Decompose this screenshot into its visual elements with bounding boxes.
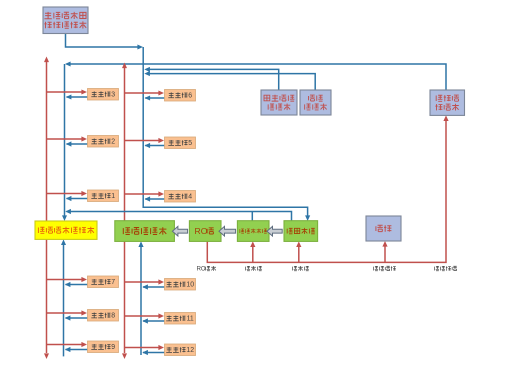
label backwash 1	[246, 266, 262, 271]
wire col2 blue return to sand filter	[143, 47, 307, 216]
box 生产线6	[165, 90, 196, 102]
wire blue return from 生产线3	[67, 96, 88, 98]
box glass edging cooling water	[35, 221, 97, 239]
arrowhead into col1 blue top	[65, 62, 71, 67]
wire stub to toilet	[384, 247, 386, 263]
wire central AC condensate to col2 blue	[147, 69, 279, 90]
box boiler condensate	[300, 90, 331, 115]
svg-text:2: 2	[111, 138, 115, 145]
arrowhead into col2 blue	[144, 67, 150, 72]
arrowhead into sand filter top	[305, 215, 310, 221]
label backwash 2	[293, 266, 309, 271]
wire blue return from 生产线9	[66, 349, 88, 351]
box domestic sewage recycle to pure water	[43, 7, 88, 34]
box 生产线10	[165, 279, 196, 291]
wire boiler condensate to col2 blue	[147, 74, 316, 90]
svg-text:RO: RO	[195, 226, 208, 236]
svg-text:4: 4	[188, 193, 192, 200]
wire backwash stub to carbon filter	[252, 247, 254, 262]
wire red supply to 生产线3	[47, 91, 83, 93]
arrowhead col1 red riser bottom	[44, 353, 49, 359]
arrowhead into glass edging box top	[62, 215, 67, 221]
svg-text:12: 12	[186, 347, 194, 354]
arrowhead col2 red riser bottom	[122, 353, 127, 359]
wire backwash stub to sand filter	[298, 247, 300, 262]
wire red supply to 生产线10	[125, 281, 160, 283]
wire red supply to 生产线9	[47, 344, 83, 346]
box 生产线11	[165, 313, 196, 325]
wire cooling tower blowdown to col1 blue	[67, 64, 447, 90]
wire red supply to 生产线1	[47, 193, 83, 195]
block arrow carbon to RO	[219, 226, 236, 236]
wire red supply to 生产线7	[47, 279, 83, 281]
arrowhead col1 red riser top	[44, 57, 49, 63]
box 生产线1	[88, 190, 119, 202]
box 生产线9	[88, 341, 119, 353]
wire blue return from 生产线12	[143, 352, 165, 354]
label cooling tower supply	[435, 266, 457, 270]
wire blue return from 生产线2	[67, 143, 88, 145]
arrowhead col2 red riser top	[122, 63, 127, 69]
wire red supply to 生产线5	[125, 140, 160, 142]
wire blue return from 生产线11	[143, 320, 165, 322]
box 生产线7	[88, 276, 119, 288]
box 生产线12	[165, 344, 196, 356]
wire col2 red riser bottom section	[124, 241, 126, 353]
svg-text:7: 7	[111, 279, 115, 286]
box activated carbon filter	[237, 221, 269, 242]
block arrow RO to glass washing	[172, 226, 187, 236]
svg-text:5: 5	[188, 140, 192, 147]
box 生产线4	[165, 191, 196, 203]
svg-text:10: 10	[186, 281, 194, 288]
wire red supply to 生产线4	[125, 193, 160, 195]
box RO membrane	[189, 221, 221, 242]
svg-text:11: 11	[187, 315, 194, 322]
wire col1 red riser top section	[46, 62, 48, 221]
wire red supply to 生产线8	[47, 312, 83, 314]
wire red supply to 生产线12	[125, 347, 160, 349]
arrowhead into col2 blue top	[137, 45, 143, 50]
wire col2 red riser top section	[124, 68, 126, 221]
wire blue return from 生产线8	[66, 317, 88, 319]
box 生产线2	[88, 136, 119, 148]
wire stub to carbon filter top	[251, 212, 253, 221]
arrowhead into cooling tower box bottom	[443, 115, 448, 121]
wire blue return from 生产线4	[145, 198, 164, 200]
wire col2 blue return bottom section	[140, 247, 142, 355]
svg-text:8: 8	[111, 312, 115, 319]
block arrow sand to carbon	[267, 226, 282, 236]
svg-text:9: 9	[111, 344, 115, 351]
svg-text:3: 3	[111, 91, 115, 98]
wire blue return from 生产线7	[66, 284, 88, 286]
wire col1 blue return bottom section	[63, 245, 65, 356]
svg-text:1: 1	[111, 193, 115, 200]
box glass washing water	[115, 221, 175, 242]
box central AC condensate	[261, 90, 297, 115]
wire col1 blue return top section	[64, 64, 66, 216]
wire blue return from 生产线1	[67, 198, 88, 200]
box 生产线5	[165, 137, 196, 149]
wire red supply to 生产线6	[125, 92, 160, 94]
wire RO concentrate manifold	[207, 121, 446, 262]
wire filter outlet header to col1 blue	[67, 212, 292, 221]
box 生产线8	[88, 310, 119, 322]
wire box A outlet to col2 blue header	[66, 34, 140, 48]
box sand filter	[284, 221, 318, 242]
wire blue return from 生产线5	[145, 145, 164, 147]
wire blue return from 生产线10	[143, 286, 165, 288]
arrowhead into glass washing box bottom	[138, 241, 143, 247]
wire col1 red riser bottom section	[46, 239, 48, 353]
box cooling tower blowdown	[430, 90, 465, 115]
box 生产线3	[88, 89, 119, 101]
wire blue return from 生产线6	[145, 97, 164, 99]
wire red supply to 生产线2	[47, 138, 83, 140]
svg-text:RO: RO	[197, 266, 206, 272]
arrowhead into col1 blue	[65, 209, 71, 214]
label RO concentrate	[197, 266, 216, 272]
box toilet	[366, 216, 401, 241]
svg-text:6: 6	[188, 92, 192, 99]
label toilet flush supply	[374, 266, 396, 270]
arrowhead into col2 blue lower	[144, 71, 150, 76]
arrowhead into glass edging box bottom	[61, 239, 66, 245]
wire red supply to 生产线11	[125, 315, 160, 317]
